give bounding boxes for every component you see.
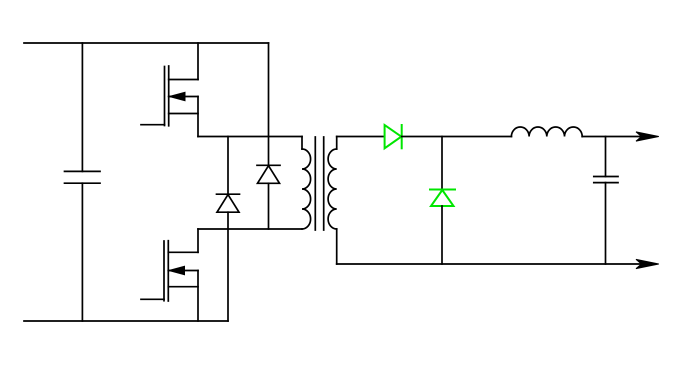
wire top rail (+input) <box>24 42 269 44</box>
wire clamp branch right lower (D2 to primary bottom) <box>268 183 270 229</box>
wire primary top (Q1 source to transformer) <box>198 136 302 138</box>
wire Q2 gate lead <box>141 298 164 300</box>
wire clamp branch left upper (primary top to D1) <box>227 137 229 195</box>
wire freewheel branch upper <box>441 137 443 190</box>
wire clamp branch left lower (D1 to bottom rail) <box>227 212 229 321</box>
wire secondary top (transformer to D3) <box>337 136 385 138</box>
wire primary bottom (Q2 drain to transformer) <box>198 228 302 230</box>
wire Q1 gate lead <box>141 124 165 126</box>
diode D1 (clamp, lower-left) <box>217 194 240 212</box>
capacitor C2 (output filter) <box>594 177 618 183</box>
wire Q2 source to bottom rail <box>197 271 199 322</box>
node output- arrow <box>636 259 659 268</box>
node output+ arrow <box>636 132 659 141</box>
diode D4 (freewheeling, green) <box>430 190 455 207</box>
wire freewheel branch lower <box>441 206 443 264</box>
transformer T1 core <box>315 137 323 230</box>
diode D3 (output rectifier, green) <box>385 125 402 148</box>
transistor Q2 (lower MOSFET) <box>164 241 198 301</box>
wire secondary bottom (transformer to output return) <box>337 263 655 265</box>
wire Q1 source down to primary top node <box>197 97 199 137</box>
capacitor C1 (input bulk) <box>65 171 101 183</box>
wire Q1 drain to top rail <box>197 43 199 80</box>
wire secondary top (D3 to inductor) <box>402 136 512 138</box>
wire output cap branch upper <box>605 137 607 177</box>
wire inductor to output <box>582 136 655 138</box>
transformer T1 secondary winding <box>328 137 337 265</box>
wire input cap branch upper <box>81 43 83 171</box>
wire Q2 drain up to primary bottom node <box>197 229 199 252</box>
wire output cap branch lower <box>605 183 607 264</box>
diode D2 (clamp, upper-right) <box>257 165 280 183</box>
inductor L1 (output filter) <box>511 127 582 137</box>
wire input cap branch lower <box>81 183 83 321</box>
wire clamp branch right upper (top rail to D2) <box>268 43 270 165</box>
transformer T1 primary winding <box>302 137 311 230</box>
wire bottom rail (-input) <box>24 320 228 322</box>
transistor Q1 (upper MOSFET) <box>165 66 199 126</box>
